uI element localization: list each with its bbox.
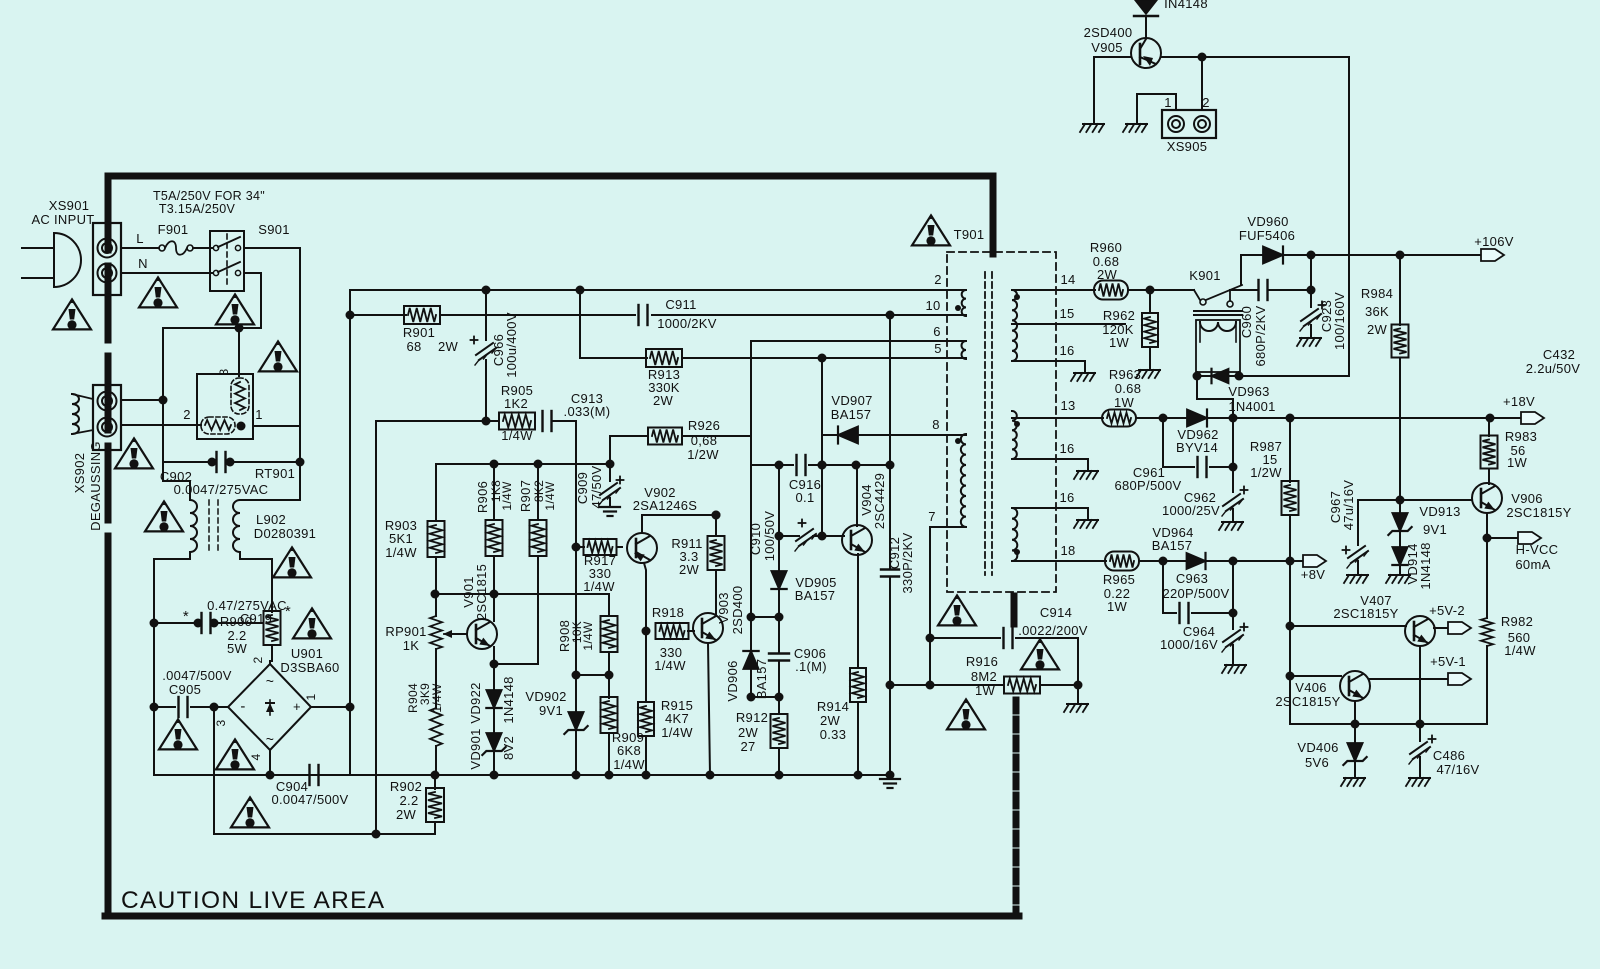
warning triangle [53, 299, 91, 329]
diode VD922 1N4148 [493, 664, 495, 690]
svg-text:+106V: +106V [1474, 234, 1513, 249]
diode VD962 BYV14 [1187, 410, 1207, 427]
resistor R918 [656, 623, 689, 639]
svg-text:R926: R926 [688, 418, 720, 433]
caution live area border right upper segment (thick dashed) [990, 176, 997, 254]
warning triangle [145, 501, 183, 531]
wire N bus down to XS902 node [162, 328, 164, 400]
svg-text:27: 27 [740, 739, 755, 754]
resistor R902 [431, 771, 440, 780]
resistor R987 [1289, 418, 1291, 482]
thermistor RT901 [197, 374, 253, 439]
svg-text:5K1: 5K1 [389, 531, 413, 546]
svg-text:68: 68 [406, 339, 421, 354]
svg-text:9V1: 9V1 [539, 703, 563, 718]
svg-text:BA157: BA157 [754, 659, 769, 700]
svg-text:1/4W: 1/4W [385, 545, 417, 560]
wire x751 down [750, 436, 752, 465]
svg-text:1/4W: 1/4W [613, 757, 645, 772]
node pin7-C914 [926, 634, 935, 643]
svg-text:0.0047/275VAC: 0.0047/275VAC [174, 482, 269, 497]
wire V406 emitter to +5V-1 [1369, 678, 1448, 680]
resistor R908 [608, 594, 610, 616]
svg-text:+5V-1: +5V-1 [1430, 654, 1466, 669]
svg-text:R907: R907 [518, 480, 533, 512]
diode VD406 5V6 zener [1354, 724, 1356, 743]
svg-text:2SC1815Y: 2SC1815Y [1506, 505, 1571, 520]
svg-text:VD963: VD963 [1228, 384, 1269, 399]
wire S901 N output [244, 273, 261, 328]
svg-text:DEGAUSSING: DEGAUSSING [88, 441, 103, 531]
wire plug prong L [22, 247, 54, 249]
wire hot rail y775 [350, 774, 890, 776]
svg-text:+: + [293, 699, 301, 714]
diode VD905 BA157 [778, 536, 780, 571]
wire HT riser x350 [349, 290, 351, 707]
capacitor C909 (electrolytic) [609, 464, 611, 481]
wire V407 base [1290, 625, 1406, 627]
svg-text:C909: C909 [575, 472, 590, 504]
wire V406 collector [1354, 701, 1356, 724]
svg-text:H-VCC: H-VCC [1516, 542, 1559, 557]
wire C919 left down to C905 node [153, 623, 155, 707]
wire pin13 [1012, 417, 1103, 419]
wire V902 collector down [644, 563, 646, 631]
terminal +5V-1 [1448, 673, 1471, 685]
bridge rectifier U901 D3SBA60 [228, 664, 311, 750]
svg-text:~: ~ [266, 731, 274, 747]
wire R905 line y421 [376, 420, 499, 422]
svg-text:1000/2KV: 1000/2KV [657, 316, 717, 331]
wire riser x576 down to R917 [575, 421, 577, 675]
capacitor C905 [154, 706, 175, 708]
svg-text:0.1: 0.1 [796, 490, 815, 505]
inductor L902 [190, 500, 197, 552]
svg-text:2: 2 [251, 656, 265, 663]
warning triangle [216, 294, 254, 324]
svg-text:4: 4 [249, 753, 263, 760]
svg-text:1K: 1K [403, 638, 420, 653]
svg-text:6: 6 [933, 324, 941, 339]
svg-text:2.2: 2.2 [400, 793, 419, 808]
wire relay coil right to V905 riser [1239, 375, 1349, 377]
wire V406 base [1290, 675, 1341, 677]
svg-text:1/4W: 1/4W [581, 621, 595, 651]
wire V905 emitter rail to x1349 [1161, 56, 1349, 58]
wire F901 to S901 [193, 247, 212, 249]
svg-text:2W: 2W [820, 713, 841, 728]
wire XS905 pin2 [1201, 57, 1203, 110]
node x822-C916 [818, 461, 827, 470]
svg-text:VD907: VD907 [831, 393, 872, 408]
resistor R982 [1481, 618, 1493, 646]
svg-text:R906: R906 [475, 481, 490, 513]
svg-text:*: * [285, 603, 291, 620]
connector XS902 [93, 385, 121, 450]
wire plug prong N [22, 277, 54, 279]
svg-text:C911: C911 [665, 297, 696, 312]
warning triangle [273, 547, 311, 577]
warning triangle T901 [912, 215, 950, 245]
svg-text:2W: 2W [679, 562, 700, 577]
svg-text:BA157: BA157 [795, 588, 836, 603]
svg-text:2W: 2W [653, 393, 674, 408]
capacitor C912 [889, 465, 891, 569]
resistor R965 [1105, 552, 1139, 571]
relay K901 contacts [1200, 299, 1206, 305]
wire base to ground [1093, 57, 1095, 122]
svg-text:1/2W: 1/2W [687, 447, 719, 462]
resistor R907 [537, 464, 539, 520]
wire V901 collector [493, 594, 495, 621]
svg-text:47u/16V: 47u/16V [1341, 480, 1356, 531]
svg-text:V905: V905 [1091, 40, 1123, 55]
terminal +106V [1481, 249, 1504, 261]
svg-text:K901: K901 [1189, 268, 1221, 283]
wire V901 emitter [493, 647, 495, 664]
resistor R960 [1094, 281, 1128, 300]
transistor V407 2SC1815Y [1405, 616, 1435, 646]
primary ground bus [306, 774, 350, 776]
wire V906 base line y500 [1358, 499, 1471, 501]
svg-text:1W: 1W [1114, 395, 1135, 410]
diode IN4148 top [1135, 0, 1157, 14]
svg-text:1: 1 [255, 407, 263, 422]
svg-text:C432: C432 [1543, 347, 1575, 362]
wire R965 to VD964 [1139, 560, 1187, 562]
warning triangle [259, 341, 297, 371]
svg-text:C486: C486 [1433, 748, 1465, 763]
svg-text:R914: R914 [817, 699, 849, 714]
wire transformer pin7 [930, 527, 966, 685]
transistor V905 2SD400 [1131, 38, 1161, 68]
transistor V904 2SC4429 [842, 525, 872, 555]
svg-text:~: ~ [266, 673, 274, 689]
resistor R916 [1004, 677, 1040, 694]
svg-text:R918: R918 [652, 605, 684, 620]
svg-text:1/4W: 1/4W [661, 725, 693, 740]
wire V905 base left [1094, 56, 1131, 58]
svg-text:0.0047/500V: 0.0047/500V [271, 792, 348, 807]
svg-text:47/50V: 47/50V [589, 465, 604, 508]
resistor R904 [435, 649, 437, 708]
resistor R906 [493, 464, 495, 520]
svg-text:2: 2 [1202, 95, 1210, 110]
wire V903 emitter [708, 643, 710, 775]
svg-text:1/4W: 1/4W [501, 428, 533, 443]
capacitor C904 [308, 765, 310, 785]
capacitor C967 (electrolytic) [1357, 500, 1359, 545]
resistor R983 [1488, 418, 1490, 436]
svg-text:60mA: 60mA [1515, 557, 1550, 572]
ground XS905 [1126, 123, 1147, 125]
resistor R903 [435, 464, 437, 521]
wire R900 to bridge [271, 645, 273, 661]
svg-text:1/4W: 1/4W [430, 683, 444, 713]
wire N from XS901 to S901 [121, 272, 212, 274]
diode VD913 9V1 zener [1399, 500, 1401, 513]
diode VD906 BA157 [750, 617, 752, 651]
svg-text:V903: V903 [716, 592, 731, 624]
wire to RT901 pin 3 [238, 328, 240, 376]
svg-text:2.2u/50V: 2.2u/50V [1526, 361, 1580, 376]
svg-text:2SC1815Y: 2SC1815Y [1275, 694, 1340, 709]
capacitor C913 [541, 411, 543, 431]
svg-text:1N4001: 1N4001 [1228, 399, 1275, 414]
wire V407 emitter to +5V-2 [1434, 627, 1448, 629]
svg-text:18: 18 [1060, 543, 1075, 558]
svg-text:2SC1815Y: 2SC1815Y [1333, 606, 1398, 621]
resistor R963 [1102, 410, 1136, 427]
wire R913 to transformer pin5 [682, 357, 966, 359]
svg-text:2: 2 [183, 407, 191, 422]
capacitor C961 [1163, 418, 1194, 467]
node rail-C966 [482, 286, 491, 295]
wire RT901 pin1 to L riser [254, 425, 300, 427]
relay K901 coil [1194, 310, 1242, 312]
wire x890 down to rail [889, 685, 891, 775]
wire riser x779 [778, 465, 780, 536]
degaussing coil [72, 394, 79, 434]
ground rail end [880, 778, 900, 780]
svg-text:+8V: +8V [1301, 567, 1325, 582]
terminal +18V [1521, 412, 1544, 424]
svg-text:36K: 36K [1365, 304, 1389, 319]
diode VD901 8V2 zener [493, 708, 495, 733]
svg-text:T3.15A/250V: T3.15A/250V [159, 202, 236, 216]
wire diode to V905 [1145, 17, 1147, 38]
svg-text:100/160V: 100/160V [1332, 292, 1347, 350]
transistor V406 2SC1815Y [1340, 671, 1370, 701]
wire XS905 pin1 [1137, 94, 1176, 122]
wire riser x890 C911 to C916 line [889, 315, 891, 465]
secondary winding 13-16 [1012, 411, 1017, 459]
wire R926 line y436 [610, 435, 648, 437]
caution live area border right lower segment (thick dashed) [1013, 700, 1020, 916]
wire +8V rail [1205, 560, 1303, 562]
wire pin16b [1012, 459, 1088, 469]
wire bridge bottom [269, 750, 271, 775]
svg-text:16: 16 [1059, 441, 1074, 456]
svg-text:R916: R916 [966, 654, 998, 669]
wire long riser x376 [375, 421, 377, 834]
svg-text:BA157: BA157 [831, 407, 872, 422]
svg-text:3: 3 [214, 719, 228, 726]
node rail-R913 [576, 286, 585, 295]
wire V906 emitter to R982 [1486, 538, 1488, 618]
svg-text:VD406: VD406 [1297, 740, 1338, 755]
terminal +5V-2 [1448, 622, 1471, 634]
capacitor C923 (electrolytic) [1300, 309, 1321, 331]
caution live area border bottom (thick solid) [105, 913, 1019, 920]
svg-text:7: 7 [928, 509, 936, 524]
svg-text:RP901: RP901 [385, 624, 426, 639]
primary winding pins 8-7 [961, 434, 966, 527]
svg-text:2W: 2W [1097, 267, 1118, 282]
resistor R962 [1149, 290, 1151, 313]
svg-text:2SA1246S: 2SA1246S [633, 498, 698, 513]
svg-text:1/2W: 1/2W [1250, 465, 1282, 480]
svg-text:2W: 2W [438, 339, 459, 354]
svg-text:2W: 2W [1367, 322, 1388, 337]
diode VD960 FUF5406 [1263, 247, 1283, 264]
svg-text:6K8: 6K8 [617, 743, 641, 758]
svg-text:1W: 1W [1107, 599, 1128, 614]
transistor V901 2SC1815 [467, 619, 497, 649]
svg-text:1/4W: 1/4W [583, 579, 615, 594]
svg-text:3: 3 [217, 368, 231, 375]
node x751-617 [747, 613, 756, 622]
svg-text:220P/500V: 220P/500V [1162, 586, 1229, 601]
wire C902 right to L902 [240, 462, 300, 500]
svg-text:C910: C910 [748, 523, 763, 555]
ground V905 base [1083, 123, 1104, 125]
svg-text:1K2: 1K2 [504, 396, 528, 411]
svg-text:1: 1 [1164, 95, 1172, 110]
svg-text:.033(M): .033(M) [564, 404, 611, 419]
wire XS902 pin2 to RT901 pin2 [121, 424, 201, 426]
svg-text:0.33: 0.33 [820, 727, 847, 742]
svg-text:R900: R900 [220, 614, 252, 629]
svg-text:U901: U901 [291, 646, 323, 661]
svg-text:V906: V906 [1511, 491, 1543, 506]
warning triangle [938, 595, 976, 625]
transformer T901 dashed box [947, 252, 1056, 592]
capacitor C914 [1002, 628, 1004, 648]
diode VD914 1N4148 [1399, 531, 1401, 547]
wire S901 L output [244, 248, 300, 462]
wire C960 to +106V rail [1310, 255, 1312, 307]
wire bridge right (+) to HT node [311, 706, 350, 708]
svg-text:L: L [136, 231, 144, 246]
svg-text:.0047/500V: .0047/500V [162, 668, 232, 683]
svg-text:47/16V: 47/16V [1436, 762, 1479, 777]
svg-text:IN4148: IN4148 [1164, 0, 1208, 11]
svg-text:D0280391: D0280391 [254, 526, 316, 541]
svg-text:5: 5 [934, 341, 942, 356]
svg-text:L902: L902 [256, 512, 286, 527]
svg-text:FUF5406: FUF5406 [1239, 228, 1295, 243]
wire pin6 line y341 [751, 341, 966, 436]
wire C911 line y315 [350, 314, 406, 316]
capacitor C962 (electrolytic) [1232, 418, 1234, 492]
svg-text:R912: R912 [736, 710, 768, 725]
resistor R915 [645, 631, 647, 702]
svg-text:N: N [138, 256, 148, 271]
wire x214 to R902 bottom wire [214, 707, 435, 834]
wire bottom bus y724 [1290, 723, 1487, 725]
phase dots [955, 305, 961, 311]
wire pin18 [1012, 560, 1106, 562]
warning triangle [216, 739, 254, 769]
svg-text:330P/2KV: 330P/2KV [900, 533, 915, 594]
svg-text:R983: R983 [1505, 429, 1537, 444]
svg-text:RT901: RT901 [255, 466, 295, 481]
wire relay coil left to +18V rail [1197, 376, 1233, 418]
warning triangle [1021, 639, 1059, 669]
resistor R900 [264, 611, 281, 645]
wire R901 to C911 [440, 314, 635, 316]
caution live area border top (thick dashed) [108, 173, 993, 180]
svg-text:VD922: VD922 [468, 682, 483, 723]
wire emitter bus y664 [494, 663, 538, 665]
svg-text:5W: 5W [227, 641, 248, 656]
fuse F901 [159, 245, 165, 251]
svg-text:R984: R984 [1361, 286, 1393, 301]
wire collector bus y594 [435, 593, 609, 595]
wire C916 line y465 [751, 464, 793, 466]
svg-text:16: 16 [1059, 490, 1074, 505]
wire pin15 stub [1012, 323, 1125, 325]
svg-text:8V2: 8V2 [501, 736, 516, 760]
svg-text:R982: R982 [1501, 614, 1533, 629]
svg-text:.1(M): .1(M) [795, 659, 827, 674]
wire y697 [751, 696, 779, 698]
primary winding pins 6-5 [962, 341, 967, 359]
wire bridge top [269, 661, 271, 664]
svg-text:R962: R962 [1103, 308, 1135, 323]
diode VD902 9V1 zener [575, 675, 577, 712]
ground R916-C914 [1067, 703, 1088, 705]
capacitor C910 (electrolytic) [795, 529, 816, 551]
svg-text:*: * [183, 608, 189, 625]
wire C905 left down [153, 707, 155, 775]
svg-text:9V1: 9V1 [1423, 522, 1447, 537]
resistor R917 [572, 543, 581, 552]
primary winding pins 2-10 [962, 290, 966, 316]
wire L from XS901 to F901 [121, 247, 159, 249]
wire C910 line y536 [779, 535, 799, 537]
svg-text:1N4148: 1N4148 [501, 676, 516, 723]
svg-text:T901: T901 [954, 227, 985, 242]
resistor R914 [850, 668, 866, 702]
wire R926 right to x751 [682, 435, 751, 437]
wire +18V rail [1207, 417, 1521, 419]
wire R916 line y685 [890, 684, 1004, 686]
capacitor C911 [637, 305, 639, 325]
svg-text:1000/25V: 1000/25V [1162, 503, 1220, 518]
resistor R905 [499, 413, 535, 430]
svg-text:1/4W: 1/4W [500, 481, 514, 511]
svg-text:4K7: 4K7 [665, 711, 689, 726]
wire relay contact up to VD960 [1241, 255, 1263, 285]
capacitor C916 [795, 455, 797, 475]
svg-text:+18V: +18V [1503, 394, 1535, 409]
svg-text:T5A/250V FOR 34": T5A/250V FOR 34" [153, 189, 265, 203]
wire R963 to VD962 [1136, 417, 1187, 419]
warning triangle [159, 719, 197, 749]
svg-text:1W: 1W [975, 683, 996, 698]
wire V902 emitter top [642, 515, 716, 533]
wire divider bus y464 [436, 463, 610, 465]
switch S901 [210, 231, 244, 291]
wire V904 collector [856, 465, 858, 526]
svg-text:1N4148: 1N4148 [1418, 542, 1433, 589]
svg-text:C914: C914 [1040, 605, 1072, 620]
svg-text:15: 15 [1059, 306, 1074, 321]
svg-text:C963: C963 [1176, 571, 1208, 586]
wire y675 [576, 674, 609, 676]
svg-text:0.68: 0.68 [1115, 381, 1142, 396]
transformer core [984, 272, 986, 575]
svg-text:680P/2KV: 680P/2KV [1253, 306, 1268, 367]
svg-text:VD901: VD901 [468, 728, 483, 769]
svg-text:S901: S901 [258, 222, 290, 237]
svg-text:R901: R901 [403, 325, 435, 340]
wire riser x1349 (V905 to relay coil) [1348, 57, 1350, 376]
svg-text:R960: R960 [1090, 240, 1122, 255]
diode VD964 BA157 [1187, 553, 1206, 569]
